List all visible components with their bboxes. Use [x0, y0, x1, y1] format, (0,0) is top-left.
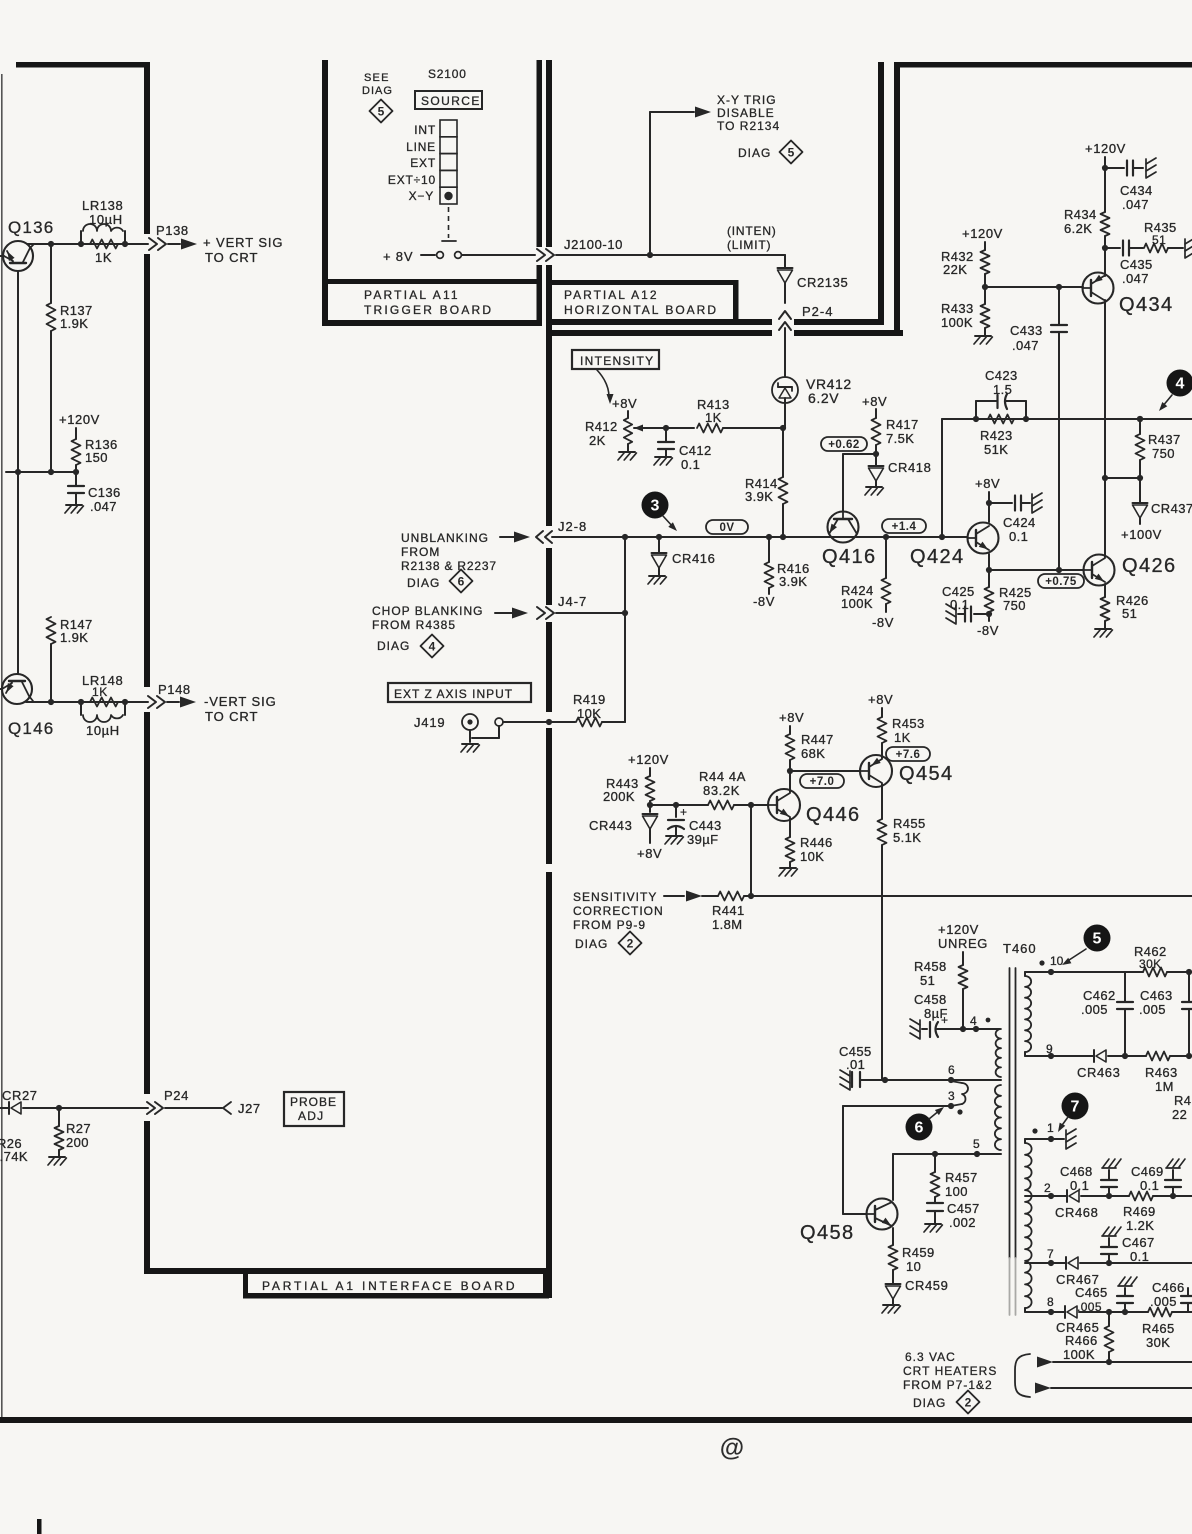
- connector P24: [147, 1102, 155, 1114]
- transistor Q446: [768, 789, 800, 821]
- svg-text:100K: 100K: [1063, 1347, 1095, 1362]
- svg-text:-8V: -8V: [977, 623, 999, 638]
- svg-text:10K: 10K: [800, 849, 824, 864]
- wire pin 10 rail: [1025, 971, 1125, 973]
- transistor Q424: [968, 523, 999, 554]
- svg-text:TO CRT: TO CRT: [205, 709, 258, 724]
- svg-text:10K: 10K: [577, 706, 601, 721]
- capacitor C412 0.1: [665, 428, 667, 442]
- svg-text:.01: .01: [846, 1057, 865, 1072]
- board border A12 inner rail right of P2-4: [794, 319, 884, 325]
- wire pin 5 rail: [893, 1153, 1001, 1155]
- svg-text:SOURCE: SOURCE: [421, 94, 481, 108]
- svg-text:Q454: Q454: [899, 763, 954, 785]
- board border A1 interface label box: [243, 1272, 248, 1298]
- wire Q458 collector to pin5 rail: [892, 1154, 894, 1200]
- resistor R437 750: [1139, 419, 1141, 434]
- wire sensitivity rail: [744, 895, 1192, 897]
- resistor R423 51K: [988, 415, 1014, 424]
- ground C457: [925, 1223, 941, 1225]
- svg-text:0.1: 0.1: [681, 457, 700, 472]
- diagram reference diamond 6: [450, 570, 473, 593]
- chassis ground C466 inner: [1118, 1285, 1132, 1287]
- wire +120V tee: [6, 471, 76, 473]
- resistor R425 750: [988, 570, 990, 587]
- wire intensity pointer arrow: [597, 370, 609, 397]
- svg-text:.002: .002: [949, 1215, 976, 1230]
- wire R419 to blanking junction: [602, 721, 625, 723]
- resistor R435 51: [1144, 244, 1168, 253]
- wire Q434 base rail: [985, 286, 1083, 288]
- wire Q424 collector node: [988, 554, 990, 570]
- svg-text:51K: 51K: [984, 442, 1008, 457]
- svg-text:-8V: -8V: [872, 615, 894, 630]
- svg-text:0.1: 0.1: [1070, 1178, 1089, 1193]
- svg-text:2: 2: [1044, 1181, 1051, 1195]
- wire heater 2: [1035, 1383, 1051, 1394]
- diagram reference diamond 5 xy: [780, 141, 803, 164]
- wire pin 7 rail: [1025, 1262, 1066, 1264]
- label EXT Z AXIS INPUT box: [388, 683, 531, 702]
- svg-text:150: 150: [85, 450, 108, 465]
- wire P24 to J27: [165, 1107, 222, 1109]
- inductor LR138 10uH: [80, 231, 82, 244]
- switch S2100 contacts: [421, 254, 435, 256]
- capacitor C433 .047: [1058, 287, 1060, 325]
- svg-text:CR27: CR27: [2, 1088, 38, 1103]
- node 3 callout: [642, 492, 669, 519]
- wire J419 to R419: [503, 721, 575, 723]
- svg-text:R4: R4: [1174, 1093, 1191, 1108]
- svg-text:.047: .047: [1122, 271, 1149, 286]
- svg-text:CHOP BLANKING: CHOP BLANKING: [372, 604, 483, 618]
- svg-text:6.2V: 6.2V: [808, 390, 839, 406]
- svg-text:+8V: +8V: [868, 692, 893, 707]
- svg-text:.047: .047: [1012, 338, 1039, 353]
- svg-text:DIAG: DIAG: [362, 85, 393, 97]
- wire J419 shell ground: [469, 730, 471, 742]
- svg-text:6.3 VAC: 6.3 VAC: [905, 1350, 956, 1364]
- svg-text:7.5K: 7.5K: [886, 431, 914, 446]
- svg-text:1.8M: 1.8M: [712, 917, 743, 932]
- svg-text:R459: R459: [902, 1245, 935, 1260]
- svg-text:CR468: CR468: [1055, 1205, 1098, 1220]
- svg-text:C467: C467: [1122, 1235, 1155, 1250]
- ground R446: [780, 867, 796, 869]
- svg-text:+8V: +8V: [612, 396, 637, 411]
- svg-text:P24: P24: [164, 1088, 189, 1103]
- capacitor C469 0.1: [1172, 1187, 1174, 1196]
- svg-text:C443: C443: [689, 818, 722, 833]
- wire R455 down to C455 node: [881, 845, 883, 1080]
- diode CR465: [1064, 1306, 1066, 1318]
- resistor R136 150: [75, 428, 77, 439]
- capacitor C136 .047: [75, 472, 77, 486]
- chassis ground C424: [1032, 493, 1042, 499]
- wire P138 out: [168, 243, 180, 245]
- svg-text:200: 200: [66, 1135, 89, 1150]
- svg-text:100K: 100K: [941, 315, 973, 330]
- svg-text:C462: C462: [1083, 988, 1116, 1003]
- board border divider rail B2: [546, 60, 552, 247]
- svg-text:.005: .005: [1081, 1002, 1108, 1017]
- chassis ground C469: [1166, 1167, 1180, 1169]
- svg-text:100: 100: [945, 1184, 968, 1199]
- svg-text:Q424: Q424: [910, 546, 965, 568]
- svg-text:Q416: Q416: [822, 546, 877, 568]
- board border A12 outer bottom rail left of P2-4: [546, 330, 772, 336]
- wire heater bracket: [1015, 1354, 1030, 1397]
- resistor R459 10: [892, 1228, 894, 1245]
- capacitor C425 0.1: [974, 613, 989, 615]
- svg-text:1.5: 1.5: [993, 382, 1012, 397]
- label INTENSITY box: [572, 350, 659, 369]
- svg-text:R412: R412: [585, 419, 618, 434]
- svg-text:EXT÷10: EXT÷10: [388, 173, 436, 187]
- svg-text:0.1: 0.1: [1140, 1178, 1159, 1193]
- board border A1 interface top rail: [16, 62, 149, 68]
- svg-text:1.2K: 1.2K: [1126, 1218, 1154, 1233]
- svg-text:DIAG: DIAG: [913, 1396, 946, 1410]
- wire Q424 emitter to +8V: [988, 492, 990, 522]
- connector P138: [149, 238, 157, 250]
- ground R412: [619, 451, 635, 453]
- svg-text:R453: R453: [892, 716, 925, 731]
- svg-text:T460: T460: [1003, 941, 1037, 956]
- wire unblanking arrow: [500, 536, 515, 538]
- svg-text:DIAG: DIAG: [738, 146, 771, 160]
- svg-text:+ VERT SIG: + VERT SIG: [203, 235, 283, 250]
- svg-text:R417: R417: [886, 417, 919, 432]
- svg-text:EXT: EXT: [410, 156, 436, 170]
- svg-text:CORRECTION: CORRECTION: [573, 904, 664, 918]
- transformer T460 primary winding lower: [995, 1085, 1001, 1150]
- svg-text:68K: 68K: [801, 746, 825, 761]
- inductor LR148 10uH: [80, 702, 82, 715]
- svg-text:SEE: SEE: [364, 72, 390, 84]
- svg-text:UNREG: UNREG: [938, 936, 988, 951]
- svg-text:1.9K: 1.9K: [60, 316, 88, 331]
- wire tap 6: [865, 1079, 1001, 1081]
- resistor R417 7.5K: [875, 409, 877, 418]
- svg-text:1K: 1K: [705, 410, 722, 425]
- svg-text:22: 22: [1172, 1107, 1187, 1122]
- wire left page edge: [1, 74, 3, 1420]
- svg-text:(LIMIT): (LIMIT): [727, 238, 771, 252]
- svg-text:R457: R457: [945, 1170, 978, 1185]
- svg-text:X-Y TRIG: X-Y TRIG: [717, 93, 777, 107]
- switch S2100 position boxes: [440, 120, 457, 137]
- wire Q434 collector down: [1104, 300, 1106, 478]
- svg-text:10: 10: [1050, 954, 1064, 968]
- connector J2-8: [536, 531, 543, 543]
- wire R444A to Q446 base: [734, 804, 768, 806]
- board border A11 trigger label box: [326, 279, 539, 284]
- svg-text:2K: 2K: [589, 433, 606, 448]
- svg-text:R447: R447: [801, 732, 834, 747]
- diagram reference diamond 2 heaters: [957, 1391, 980, 1414]
- diagram reference diamond 5: [370, 100, 393, 123]
- svg-text:C465: C465: [1075, 1285, 1108, 1300]
- svg-text:3: 3: [948, 1089, 955, 1103]
- svg-text:10µH: 10µH: [86, 723, 120, 738]
- connector J4-7: [537, 607, 545, 619]
- capacitor C443 39uF: [675, 805, 677, 817]
- resistor R147 1.9K: [47, 617, 56, 644]
- resistor R446 10K: [789, 818, 791, 837]
- svg-text:+7.6: +7.6: [896, 749, 921, 761]
- svg-text:R455: R455: [893, 816, 926, 831]
- svg-text:0.1: 0.1: [1130, 1249, 1149, 1264]
- svg-text:R433: R433: [941, 301, 974, 316]
- svg-text:1: 1: [1047, 1121, 1054, 1135]
- svg-text:CR416: CR416: [672, 551, 715, 566]
- label SOURCE box: [415, 91, 482, 109]
- resistor R27 200: [56, 1105, 62, 1111]
- svg-text:TRIGGER BOARD: TRIGGER BOARD: [364, 303, 493, 317]
- svg-text:0V: 0V: [719, 522, 734, 534]
- capacitor C424 0.1: [989, 502, 1012, 504]
- wire switch wiper dashed: [448, 207, 450, 238]
- svg-text:+0.75: +0.75: [1045, 576, 1077, 588]
- resistor R414 3.9K: [782, 428, 784, 477]
- svg-text:7: 7: [1071, 1099, 1080, 1116]
- svg-text:.047: .047: [1122, 197, 1149, 212]
- svg-text:Q426: Q426: [1122, 555, 1177, 577]
- svg-text:R2138 & R2237: R2138 & R2237: [401, 559, 497, 573]
- capacitor C463 .005: [1188, 972, 1190, 1002]
- resistor R441 1.8M: [702, 895, 718, 897]
- svg-text:+8V: +8V: [779, 710, 804, 725]
- svg-text:-VERT SIG: -VERT SIG: [204, 694, 277, 709]
- capacitor C435 .047: [1105, 247, 1120, 249]
- svg-text:J27: J27: [238, 1101, 261, 1116]
- resistor R424 100K: [885, 537, 887, 578]
- svg-text:UNBLANKING: UNBLANKING: [401, 531, 489, 545]
- svg-text:C433: C433: [1010, 323, 1043, 338]
- chassis ground C467: [1102, 1235, 1116, 1237]
- wire -VERT SIG rail: [26, 701, 148, 703]
- wire Q424 to Q426 base: [989, 569, 1084, 571]
- svg-text:+120V: +120V: [938, 922, 979, 937]
- wire pin 9 rail: [1025, 1055, 1094, 1057]
- node 6 callout: [906, 1114, 933, 1141]
- svg-text:.047: .047: [90, 499, 117, 514]
- capacitor C467 0.1: [1108, 1254, 1110, 1263]
- label +0.75 reading: [1038, 574, 1084, 588]
- transistor Q136: [3, 241, 33, 271]
- svg-text:3.9K: 3.9K: [745, 489, 773, 504]
- wire +120V to R434: [1104, 157, 1106, 212]
- svg-text:5: 5: [1093, 931, 1102, 948]
- resistor R462 30K: [1125, 971, 1143, 973]
- transistor Q434: [1083, 273, 1114, 304]
- transistor Q146: [2, 674, 32, 704]
- wire pin 2 rail: [1025, 1195, 1067, 1197]
- connector P148: [148, 696, 156, 708]
- board border outer right rail: [894, 62, 900, 332]
- ground C443: [666, 835, 682, 837]
- svg-text:+120V: +120V: [628, 752, 669, 767]
- svg-text:+: +: [680, 805, 687, 819]
- wire Z axis drive rail: [942, 418, 1192, 420]
- diode CR2135: [778, 267, 793, 269]
- svg-text:30K: 30K: [1139, 957, 1162, 971]
- svg-text:+ 8V: + 8V: [383, 249, 413, 264]
- transistor Q458: [867, 1199, 898, 1230]
- wire sensitivity arrow: [664, 895, 684, 897]
- wire unblanking rail: [552, 536, 967, 538]
- svg-text:C469: C469: [1131, 1164, 1164, 1179]
- svg-text:.005: .005: [1139, 1002, 1166, 1017]
- transistor Q416: [828, 512, 859, 543]
- board border divider rail B1: [537, 60, 543, 247]
- resistor R419 10K: [576, 718, 602, 727]
- svg-text:DIAG: DIAG: [377, 639, 410, 653]
- svg-text:1.9K: 1.9K: [60, 630, 88, 645]
- svg-text:6: 6: [915, 1120, 924, 1137]
- resistor R455 5.1K: [881, 784, 883, 819]
- ground CR459: [883, 1304, 899, 1306]
- svg-text:22K: 22K: [943, 262, 967, 277]
- resistor R413 1K: [697, 424, 723, 433]
- resistor R465 30K: [1148, 1308, 1172, 1317]
- svg-text:51: 51: [920, 973, 935, 988]
- wire R423 node vertical: [941, 419, 943, 537]
- wire Q446 base to sensitivity rail: [750, 805, 752, 896]
- svg-text:+120V: +120V: [1085, 141, 1126, 156]
- svg-text:1K: 1K: [95, 250, 112, 265]
- ground CR418: [866, 486, 882, 488]
- ground J419: [462, 743, 478, 745]
- svg-text:INTENSITY: INTENSITY: [580, 354, 654, 368]
- svg-text:PARTIAL A12: PARTIAL A12: [564, 288, 659, 302]
- svg-text:PROBE: PROBE: [290, 1095, 337, 1109]
- transformer T460 primary tap loop 6-3: [951, 1081, 962, 1083]
- svg-text:R463: R463: [1145, 1065, 1178, 1080]
- svg-text:DIAG: DIAG: [575, 937, 608, 951]
- svg-text:C434: C434: [1120, 183, 1153, 198]
- board border bottom page rule: [0, 1417, 1192, 1423]
- svg-text:1M: 1M: [1155, 1079, 1174, 1094]
- svg-text:EXT Z AXIS INPUT: EXT Z AXIS INPUT: [394, 687, 513, 701]
- svg-text:4: 4: [429, 640, 436, 654]
- wire Q146 base stub: [0, 688, 2, 690]
- svg-text:P138: P138: [156, 223, 189, 238]
- capacitor C466 inner .005: [1124, 1303, 1126, 1312]
- wire blanking junction vertical: [624, 537, 626, 722]
- chassis ground R435 edge: [1185, 238, 1192, 244]
- wire Q446 emitter to Q454 base: [790, 770, 860, 772]
- connector J2100-10: [537, 249, 545, 261]
- svg-text:Q458: Q458: [800, 1222, 855, 1244]
- ground R27: [58, 1150, 60, 1157]
- svg-text:100K: 100K: [841, 596, 873, 611]
- svg-text:+1.4: +1.4: [892, 521, 917, 533]
- svg-text:C136: C136: [88, 485, 121, 500]
- svg-text:ADJ: ADJ: [298, 1109, 324, 1123]
- svg-text:C423: C423: [985, 368, 1018, 383]
- svg-text:.005: .005: [1150, 1294, 1177, 1309]
- svg-text:4: 4: [1176, 376, 1185, 393]
- svg-text:10µH: 10µH: [89, 212, 123, 227]
- svg-text:R446: R446: [800, 835, 833, 850]
- wire switch to J2100-10: [462, 254, 535, 256]
- wire J2100 to CR2135: [784, 255, 786, 268]
- svg-text:9: 9: [1046, 1042, 1053, 1056]
- capacitor C457 .002: [927, 1202, 943, 1204]
- capacitor C462 .005: [1124, 972, 1126, 1002]
- wire Q458 base loop: [842, 1106, 844, 1214]
- transformer T460 primary winding upper: [996, 1029, 1001, 1077]
- board border inner right rail: [878, 62, 884, 321]
- svg-text:83.2K: 83.2K: [703, 783, 740, 798]
- svg-text:R465: R465: [1142, 1321, 1175, 1336]
- label PROBE ADJ box: [284, 1092, 344, 1126]
- svg-text:R27: R27: [66, 1121, 91, 1136]
- label +7.6 reading: [886, 747, 930, 761]
- wire R437 CR437 tie: [1105, 477, 1140, 479]
- zener VR412 6.2V: [772, 377, 798, 403]
- svg-text:51: 51: [1122, 606, 1137, 621]
- svg-text:+120V: +120V: [962, 226, 1003, 241]
- svg-text:CR2135: CR2135: [797, 275, 848, 290]
- svg-text:750: 750: [1152, 446, 1175, 461]
- svg-text:FROM: FROM: [401, 545, 440, 559]
- resistor R443 200K: [649, 768, 651, 776]
- capacitor C434 .047: [1105, 167, 1124, 169]
- diode CR418: [869, 465, 884, 467]
- svg-text:CR459: CR459: [905, 1278, 948, 1293]
- svg-text:C424: C424: [1003, 515, 1036, 530]
- svg-text:J4-7: J4-7: [558, 594, 587, 609]
- svg-text:2: 2: [965, 1396, 972, 1410]
- svg-text:HORIZONTAL BOARD: HORIZONTAL BOARD: [564, 303, 718, 317]
- resistor R469 1.2K: [1129, 1192, 1153, 1201]
- ground C412: [655, 456, 671, 458]
- svg-text:+: +: [941, 1013, 948, 1027]
- board border A1 interface bottom rail: [144, 1268, 549, 1274]
- svg-text:SENSITIVITY: SENSITIVITY: [573, 890, 657, 904]
- svg-text:C458: C458: [914, 992, 947, 1007]
- resistor R457 100: [934, 1154, 936, 1172]
- svg-text:39µF: 39µF: [687, 832, 719, 847]
- svg-text:R44 4A: R44 4A: [699, 769, 746, 784]
- board border A1 interface left rail: [144, 62, 150, 234]
- svg-text:C466: C466: [1152, 1280, 1185, 1295]
- svg-text:4: 4: [970, 1014, 977, 1028]
- connector J27: [223, 1102, 231, 1114]
- label 0V reading: [706, 520, 748, 534]
- svg-text:200K: 200K: [603, 789, 635, 804]
- svg-text:+7.0: +7.0: [810, 776, 835, 788]
- svg-text:+0.62: +0.62: [828, 439, 860, 451]
- svg-text:2.74K: 2.74K: [0, 1149, 28, 1164]
- resistor R433 100K: [981, 304, 990, 328]
- diode CR459: [886, 1283, 901, 1285]
- svg-text:5: 5: [973, 1137, 980, 1151]
- wire Q416 base from +0.62 node: [842, 454, 844, 511]
- svg-text:3: 3: [651, 498, 660, 515]
- wire Q136 collector to Q146: [17, 271, 19, 674]
- svg-text:6.2K: 6.2K: [1064, 221, 1092, 236]
- svg-text:PARTIAL A11: PARTIAL A11: [364, 288, 460, 302]
- svg-text:C435: C435: [1120, 257, 1153, 272]
- resistor R458 51: [962, 952, 964, 965]
- svg-text:1K: 1K: [92, 685, 108, 699]
- svg-text:R423: R423: [980, 428, 1013, 443]
- node bottom-left page mark: [37, 1519, 42, 1534]
